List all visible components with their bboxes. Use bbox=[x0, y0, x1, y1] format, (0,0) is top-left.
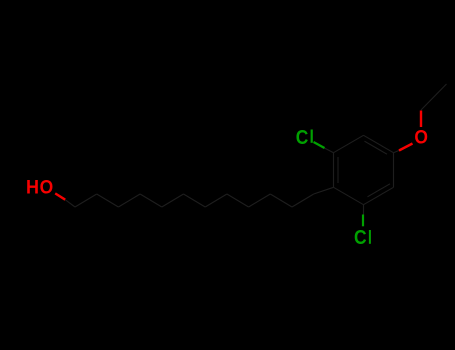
bond C6-C7 bbox=[184, 194, 206, 207]
benzene ring edge T-TR bbox=[364, 135, 394, 152]
bond C4-C5 bbox=[140, 194, 162, 207]
bond C11-C12 bbox=[292, 194, 314, 207]
bond ring TL to Cl1 dark half bbox=[324, 148, 334, 153]
svg-text:O: O bbox=[40, 177, 54, 199]
bond C5-C6 bbox=[162, 194, 184, 207]
benzene ring inner double bond T-TR bbox=[365, 141, 388, 154]
benzene ring edge BL-TL bbox=[333, 153, 335, 188]
bond C7-C8 bbox=[205, 194, 227, 207]
benzene ring edge B-BL bbox=[334, 187, 364, 204]
bond C3-C4 bbox=[118, 194, 140, 207]
bond C12-ring bbox=[314, 187, 334, 194]
svg-text:C: C bbox=[296, 127, 309, 149]
bond ring B to Cl2 dark half bbox=[363, 205, 365, 215]
bond ring O red half bbox=[399, 144, 413, 151]
bond O-C1 dark half bbox=[65, 200, 75, 207]
bond O-CH2 red vertical bbox=[420, 111, 422, 128]
svg-text:H: H bbox=[26, 177, 39, 199]
bond C2-C3 bbox=[97, 194, 119, 207]
bond ring TR to O dark half bbox=[394, 150, 401, 153]
benzene ring inner double bond BL-TL bbox=[337, 157, 339, 183]
bond C9-C10 bbox=[249, 194, 271, 207]
label Cl1 (chlorine top-left) l bbox=[311, 130, 313, 143]
bond O-C1 red half bbox=[55, 193, 65, 199]
svg-text:O: O bbox=[414, 127, 428, 149]
bond Cl2 green half bbox=[362, 215, 364, 227]
benzene ring edge TL-T bbox=[334, 135, 364, 152]
bond C8-C9 bbox=[227, 194, 249, 207]
bond CH2-CH3 bbox=[421, 84, 447, 110]
benzene ring edge BR-B bbox=[364, 187, 394, 204]
benzene ring inner double bond BR-B bbox=[368, 184, 391, 197]
label Cl2 (chlorine bottom) l bbox=[369, 230, 371, 244]
bond C10-C11 bbox=[270, 194, 292, 207]
bond Cl1 green half bbox=[314, 142, 325, 148]
svg-text:C: C bbox=[354, 227, 367, 249]
benzene ring edge TR-BR bbox=[393, 153, 395, 188]
bond C1-C2 bbox=[75, 194, 97, 207]
